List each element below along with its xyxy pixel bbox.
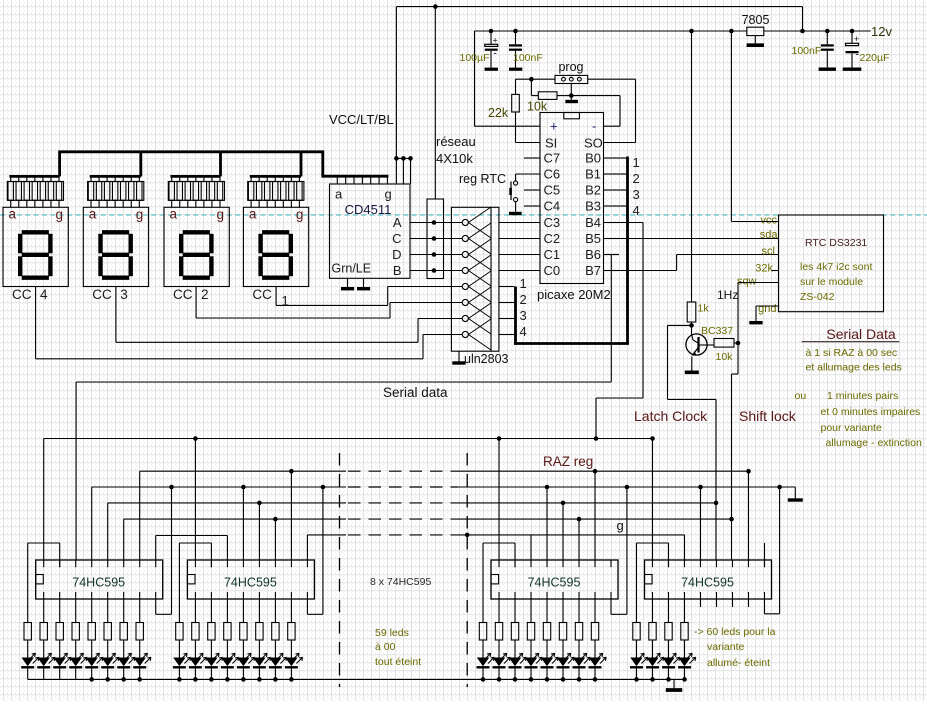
ground (LED bus) <box>666 688 682 692</box>
svg-text:1: 1 <box>520 276 527 291</box>
resistor network RN3 (display 3 segment resistors) <box>88 176 144 207</box>
pin stubs U7 top <box>44 560 156 567</box>
svg-text:100nF: 100nF <box>792 45 822 57</box>
pin stubs picaxe right B0-B7 <box>604 158 620 271</box>
svg-text:allumé- éteint: allumé- éteint <box>707 657 770 669</box>
resistor R2 10k (horizontal) <box>527 92 571 114</box>
svg-text:100µF: 100µF <box>460 52 490 64</box>
wire: row R4 (latch) <box>108 501 716 560</box>
svg-text:a: a <box>9 207 17 222</box>
svg-text:RAZ reg: RAZ reg <box>543 454 593 469</box>
svg-text:22k: 22k <box>488 106 509 120</box>
svg-text:59 leds: 59 leds <box>375 627 409 639</box>
ground (C4) <box>843 67 862 70</box>
svg-text:+: + <box>550 119 558 134</box>
svg-text:74HC595: 74HC595 <box>528 576 581 590</box>
svg-text:Grn/LE: Grn/LE <box>332 262 372 276</box>
svg-text:32k: 32k <box>755 263 773 275</box>
svg-text:B4: B4 <box>585 215 601 230</box>
wire: row R2 (RAZ reg) <box>140 469 751 560</box>
wire: feed arch U8 <box>179 543 211 623</box>
ground (RTC) <box>749 321 762 324</box>
svg-text:SO: SO <box>584 136 603 151</box>
svg-text:B6: B6 <box>585 247 601 262</box>
wire: row R5 (shift lock) <box>124 517 732 560</box>
resistor network RN5 (display 1 segment resistors) <box>248 176 304 207</box>
junction dots: LED cathode bus right <box>481 677 687 689</box>
ground (C1) <box>485 68 498 71</box>
svg-text:C6: C6 <box>544 167 561 182</box>
svg-text:C5: C5 <box>544 183 561 198</box>
wire: cascade in U10 <box>765 487 780 614</box>
svg-text:tout éteint: tout éteint <box>375 656 421 668</box>
svg-text:B0: B0 <box>585 151 601 166</box>
svg-text:3: 3 <box>120 287 128 302</box>
svg-text:a: a <box>170 207 178 222</box>
section separator dashed right <box>466 453 468 687</box>
svg-text:1: 1 <box>281 294 289 309</box>
svg-text:uln2803: uln2803 <box>464 352 509 366</box>
wire: B4 to serial shift row <box>596 223 643 439</box>
wire: 12V input net (top line to 7805 input) <box>396 4 870 33</box>
svg-text:à 00: à 00 <box>375 641 396 653</box>
svg-text:B: B <box>393 263 402 278</box>
wire: prog center pin to ground <box>569 84 574 101</box>
wire: serial data row <box>76 382 611 560</box>
pin stubs picaxe left (C7,C5,C4) <box>524 158 540 206</box>
bus: segment feed display 4 (thick) <box>9 152 59 177</box>
svg-text:D: D <box>392 247 401 262</box>
svg-text:-: - <box>856 50 859 61</box>
svg-text:B5: B5 <box>585 231 601 246</box>
pin stubs CD4511 segment outputs a-g <box>337 176 387 184</box>
svg-text:12v: 12v <box>871 24 892 39</box>
svg-text:4: 4 <box>633 203 640 218</box>
wire: +V to picaxe <box>475 125 541 127</box>
wire: feed arch U10 <box>637 543 669 623</box>
svg-text:Latch Clock: Latch Clock <box>634 408 708 424</box>
svg-text:C4: C4 <box>544 199 561 214</box>
bus: segment bus (thick) <box>58 150 388 176</box>
svg-text:scl: scl <box>762 246 775 258</box>
svg-text:C7: C7 <box>544 151 561 166</box>
svg-text:et allumage des leds: et allumage des leds <box>806 362 902 374</box>
bus: segment feed display 1 (thick) <box>250 152 301 177</box>
label 60 leds variante <box>694 626 776 669</box>
pin stubs U9 top <box>499 560 611 567</box>
section separator dashed left <box>339 453 341 687</box>
svg-text:C1: C1 <box>544 247 561 262</box>
label Serial Data (title) <box>802 326 900 342</box>
svg-text:Serial Data: Serial Data <box>826 326 895 342</box>
svg-text:RTC DS3231: RTC DS3231 <box>805 237 867 249</box>
svg-text:a: a <box>335 187 343 202</box>
microcontroller U2 picaxe 20M2 <box>537 113 611 303</box>
svg-text:ZS-042: ZS-042 <box>800 291 835 303</box>
wire: B5 to sda <box>619 238 779 240</box>
wire: cascade out U9 <box>611 487 627 614</box>
svg-text:-> 60 leds pour la: -> 60 leds pour la <box>694 626 776 638</box>
shift register U8 74HC595 <box>187 560 314 599</box>
LED bank U7 <box>21 640 151 679</box>
wire: CC3 to uln in7 <box>116 287 462 343</box>
wire: SI pin <box>516 142 541 144</box>
pin stubs U10 top <box>653 560 765 567</box>
svg-text:3: 3 <box>520 308 527 323</box>
wire: prog pin1 net <box>516 77 556 96</box>
labels bus entries 1-4 (uln side) <box>520 276 527 339</box>
pin stub 32k <box>772 270 779 272</box>
wire: +5V rail <box>475 29 747 127</box>
resistor bank U7 <box>24 623 143 641</box>
bus: segment feed display 2 (thick) <box>170 152 220 177</box>
svg-text:2: 2 <box>520 292 527 307</box>
label 59 leds <box>375 627 421 668</box>
wire: cascade out U8 <box>307 487 323 614</box>
svg-text:à 1 si RAZ à 00 sec: à 1 si RAZ à 00 sec <box>806 347 898 359</box>
driver U4 uln2803 <box>451 207 508 366</box>
connector J1 prog <box>555 60 588 84</box>
shift register U7 74HC595 <box>36 560 163 599</box>
wire: row R3 (enable/cascade) <box>92 485 796 560</box>
svg-text:BC337: BC337 <box>701 325 733 337</box>
svg-text:1 minutes pairs: 1 minutes pairs <box>827 390 898 402</box>
svg-text:4: 4 <box>520 324 527 339</box>
svg-text:prog: prog <box>558 60 583 74</box>
resistor network RN1 4X10k <box>427 7 476 279</box>
svg-text:les 4k7 i2c sont: les 4k7 i2c sont <box>800 261 872 273</box>
label CC 2 <box>173 287 209 302</box>
ground (C2) <box>509 68 522 71</box>
svg-text:10k: 10k <box>716 351 734 363</box>
resistor network RN4 (display 2 segment resistors) <box>168 176 224 207</box>
svg-text:C2: C2 <box>544 231 561 246</box>
pin stubs U7 bottom <box>44 592 140 623</box>
resistor bank U9 <box>479 623 598 641</box>
svg-text:g: g <box>136 207 144 222</box>
pin stubs U8 top <box>195 560 307 567</box>
display DS3 7-segment (CC 3) <box>83 207 148 287</box>
svg-text:allumage - extinction: allumage - extinction <box>826 437 922 449</box>
svg-text:SI: SI <box>545 136 557 151</box>
svg-text:7805: 7805 <box>742 13 770 27</box>
annotation text right <box>795 347 922 449</box>
dashed guide line <box>0 214 927 216</box>
svg-text:sur le module: sur le module <box>800 276 863 288</box>
svg-text:100nF: 100nF <box>513 52 543 64</box>
svg-text:a: a <box>89 207 97 222</box>
svg-text:220µF: 220µF <box>860 52 890 64</box>
resistor bank U10 <box>633 623 688 641</box>
wire: LED cathode bus <box>28 677 685 682</box>
svg-text:-: - <box>592 119 596 134</box>
ground (C3) <box>819 67 836 70</box>
svg-text:C: C <box>392 231 401 246</box>
svg-text:74HC595: 74HC595 <box>224 576 277 590</box>
wire: CC4 to uln in8 <box>36 287 463 359</box>
module U6 RTC DS3231 (ZS-042) <box>779 215 884 312</box>
svg-text:74HC595: 74HC595 <box>72 576 125 590</box>
wire: latch clock (collector net) <box>668 323 719 560</box>
svg-text:1Hz: 1Hz <box>717 288 738 302</box>
switch SW1 reg RTC <box>459 172 540 212</box>
ground (row R3) <box>788 498 803 501</box>
svg-text:4X10k: 4X10k <box>436 151 473 166</box>
shift register U9 74HC595 <box>491 560 618 599</box>
capacitor C1 100uF (polarized) <box>485 31 498 68</box>
svg-text:CC: CC <box>173 287 193 302</box>
pin stubs U10 bottom <box>653 592 749 623</box>
wire: feed arch U9 <box>483 543 515 623</box>
capacitor C3 100nF (7805 output) <box>821 29 834 68</box>
svg-text:sqw: sqw <box>737 276 757 288</box>
pin stubs U8 bottom <box>195 592 291 623</box>
svg-text:g: g <box>385 187 392 202</box>
svg-text:reg RTC: reg RTC <box>459 172 506 186</box>
resistor R3 1k <box>687 31 709 334</box>
display DS2 7-segment (CC 2) <box>164 207 229 287</box>
ground (SW1) <box>509 212 522 215</box>
capacitor C2 100nF <box>509 31 522 68</box>
wire: uln rows 5-8 to digit bus <box>499 287 514 335</box>
svg-text:et 0 minutes impaires: et 0 minutes impaires <box>821 406 921 418</box>
svg-text:pour variante: pour variante <box>821 422 882 434</box>
ground (Q1 emitter) <box>685 370 699 374</box>
wire: picaxe minus pin to ground <box>571 96 620 127</box>
svg-text:B2: B2 <box>585 183 601 198</box>
svg-text:réseau: réseau <box>436 134 476 149</box>
display DS4 7-segment (CC 4) <box>3 207 68 287</box>
svg-text:gnd: gnd <box>758 303 776 315</box>
svg-text:4: 4 <box>40 287 48 302</box>
svg-text:+: + <box>854 34 859 44</box>
shift register U10 74HC595 <box>645 560 772 599</box>
LED bank U9 <box>477 640 607 679</box>
label CC 1 <box>252 287 289 309</box>
svg-text:g: g <box>56 207 64 222</box>
svg-text:74HC595: 74HC595 <box>681 576 734 590</box>
svg-text:3: 3 <box>633 187 640 202</box>
wire: cascade out U7 <box>156 487 172 614</box>
svg-text:8 x 74HC595: 8 x 74HC595 <box>370 576 431 588</box>
svg-text:Shift lock: Shift lock <box>739 408 797 424</box>
svg-text:B7: B7 <box>585 263 601 278</box>
svg-text:C0: C0 <box>544 263 561 278</box>
resistor network RN2 (display 4 segment resistors) <box>7 176 63 207</box>
decoder U3 CD4511 <box>330 184 411 278</box>
capacitor C4 220uF (polarized) <box>846 31 860 68</box>
svg-text:2: 2 <box>633 171 640 186</box>
svg-text:vcc: vcc <box>761 215 778 227</box>
transistor Q1 BC337 <box>686 325 733 372</box>
wire: CC2 to uln in6 <box>196 287 462 319</box>
svg-text:2: 2 <box>201 287 209 302</box>
wire: B7 to scl <box>619 255 779 271</box>
svg-text:ou: ou <box>795 390 807 402</box>
wire: row R6 (g) <box>156 533 685 560</box>
bus: segment feed display 3 (thick) <box>90 152 141 177</box>
pin labels RTC <box>737 215 778 316</box>
svg-text:B3: B3 <box>585 199 601 214</box>
wire: CC1 to uln in5 <box>276 287 462 306</box>
svg-text:CC: CC <box>12 287 32 302</box>
resistor bank U8 <box>176 623 295 641</box>
regulator U5 7805 <box>742 13 770 36</box>
resistor R4 10k (base) <box>709 339 740 364</box>
svg-text:VCC/LT/BL: VCC/LT/BL <box>329 112 394 127</box>
svg-text:CC: CC <box>92 287 112 302</box>
pin stubs U9 bottom <box>499 592 595 623</box>
svg-text:Serial data: Serial data <box>383 385 448 400</box>
svg-text:CC: CC <box>252 287 272 302</box>
ground (Grn/LE pin a) <box>341 278 354 288</box>
svg-text:g: g <box>617 518 624 533</box>
label CC 4 <box>12 287 48 302</box>
svg-text:1: 1 <box>633 155 640 170</box>
svg-text:g: g <box>217 207 225 222</box>
bus: B0-B3 digit bus (thick) <box>514 157 629 345</box>
wire: feed arch U7 <box>28 543 60 623</box>
svg-text:1k: 1k <box>698 303 710 315</box>
svg-text:sda: sda <box>760 229 779 241</box>
svg-text:-: - <box>494 49 497 60</box>
LED bank U8 <box>173 640 303 679</box>
wire: RTC gnd <box>756 306 779 322</box>
svg-text:a: a <box>249 207 257 222</box>
svg-text:picaxe 20M2: picaxe 20M2 <box>537 287 611 302</box>
ground (prog) <box>565 100 578 103</box>
wire: vcc riser <box>731 31 778 222</box>
svg-text:CD4511: CD4511 <box>345 202 392 217</box>
svg-text:variante: variante <box>707 641 745 653</box>
wire: uln outputs 1-4 to picaxe C3-C0 <box>499 223 540 271</box>
svg-text:g: g <box>296 207 304 222</box>
ground (7805 tab) <box>747 36 764 46</box>
svg-text:+: + <box>493 35 498 45</box>
wire: VCC/LT/BL pins <box>394 7 413 184</box>
ground (uln2803) <box>452 351 465 363</box>
resistor R1 22k (vertical) <box>488 79 519 142</box>
wire: A/C/D/B lines CD4511 to uln <box>410 220 462 273</box>
LED bank U10 <box>630 640 696 679</box>
svg-text:A: A <box>393 215 402 230</box>
wire: prog pin3 to SO <box>588 79 636 142</box>
svg-text:C3: C3 <box>544 215 561 230</box>
labels bus entries 1-4 (picaxe side) <box>633 155 640 218</box>
svg-text:10k: 10k <box>527 100 548 114</box>
wire: sqw 1Hz to shift lock <box>729 283 778 561</box>
ground (Grn/LE pin b) <box>357 278 370 288</box>
wire: shift/B4 row R1 <box>44 436 655 560</box>
svg-text:B1: B1 <box>585 167 601 182</box>
display DS1 7-segment (CC 1) <box>243 207 308 287</box>
label CC 3 <box>92 287 128 302</box>
wire: B6 serial data <box>604 255 620 383</box>
